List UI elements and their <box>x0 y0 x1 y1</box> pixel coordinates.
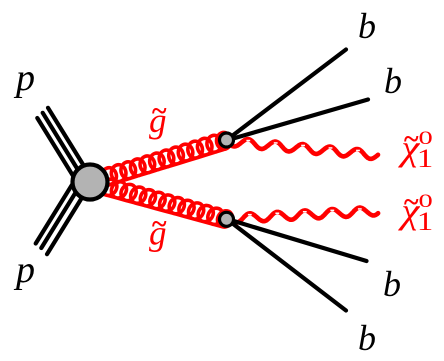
svg-text:p: p <box>13 249 35 291</box>
decay vertex blob upper <box>220 133 234 147</box>
neutralino wavy line upper <box>231 139 378 159</box>
label neutralino chi-1-0 (upper) <box>397 124 433 173</box>
b-quark line 2 <box>228 100 368 141</box>
b-quark line 4 (bottom) <box>228 220 346 311</box>
proton lines upper (triple) <box>37 108 93 191</box>
proton lines lower (triple) <box>36 171 92 254</box>
svg-text:1: 1 <box>417 208 433 236</box>
svg-text:b: b <box>358 6 376 46</box>
gluino line lower (gluon coil) <box>82 174 232 227</box>
gluino line upper (gluon coil) <box>83 132 231 190</box>
decay vertex blob lower <box>220 212 234 226</box>
svg-text:~: ~ <box>151 209 167 240</box>
neutralino wavy line lower <box>231 208 378 223</box>
label neutralino chi-1-0 (lower) <box>397 187 433 236</box>
label gluino g-tilde (upper) <box>149 96 167 140</box>
svg-text:p: p <box>13 57 35 99</box>
svg-text:1: 1 <box>417 145 433 173</box>
b-quark line 3 <box>228 219 367 261</box>
svg-text:b: b <box>384 61 402 101</box>
svg-text:b: b <box>358 318 376 358</box>
label gluino g-tilde (lower) <box>149 209 167 253</box>
central interaction blob <box>73 165 108 200</box>
b-quark line 1 (top) <box>228 50 346 140</box>
svg-text:b: b <box>383 264 401 304</box>
svg-text:~: ~ <box>151 96 167 127</box>
